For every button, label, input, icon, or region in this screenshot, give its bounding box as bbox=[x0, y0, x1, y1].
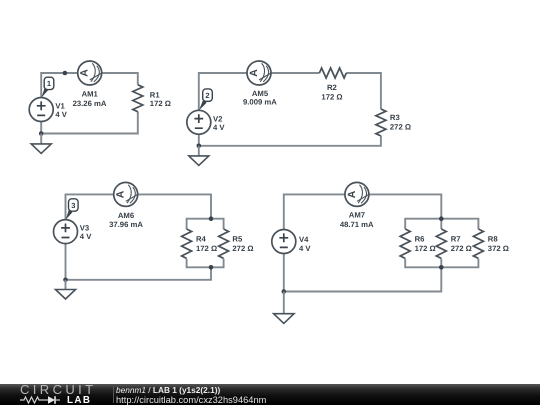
resistor R5 bbox=[219, 229, 229, 258]
svg-text:9.009 mA: 9.009 mA bbox=[243, 98, 277, 107]
svg-text:AM7: AM7 bbox=[349, 211, 365, 220]
svg-text:3: 3 bbox=[71, 201, 75, 210]
svg-text:R5: R5 bbox=[232, 235, 243, 244]
ammeter AM1 bbox=[78, 61, 102, 85]
voltage source V1 bbox=[29, 98, 53, 122]
svg-text:172 Ω: 172 Ω bbox=[415, 244, 436, 253]
footer bar bbox=[0, 384, 540, 405]
ground (circuit 3) bbox=[56, 280, 76, 299]
svg-text:2: 2 bbox=[205, 91, 209, 100]
svg-text:172 Ω: 172 Ω bbox=[321, 93, 342, 102]
svg-text:AM5: AM5 bbox=[252, 89, 269, 98]
voltage source V3 bbox=[54, 220, 78, 244]
resistor R2 bbox=[319, 68, 346, 78]
node junction dot bottom bbox=[39, 131, 44, 136]
wire top: V3 top to parallel feed bbox=[66, 194, 212, 220]
svg-text:1: 1 bbox=[47, 79, 51, 88]
bottom bus R6/R7/R8 bbox=[405, 259, 478, 268]
wire bottom: R3 bottom to V2 bottom bbox=[199, 134, 381, 146]
junction dot V4 bottom bbox=[282, 289, 287, 294]
svg-text:R2: R2 bbox=[327, 83, 337, 92]
node junction dot on top wire bbox=[63, 71, 68, 76]
R7 bottom stem bbox=[440, 259, 442, 268]
wire: bus to bottom bbox=[284, 254, 442, 292]
wire: bus to bottom bbox=[66, 244, 212, 280]
svg-text:AM1: AM1 bbox=[82, 90, 99, 99]
voltage source V2 bbox=[187, 110, 211, 134]
top bus R4/R5 bbox=[187, 219, 224, 229]
resistor R3 bbox=[376, 109, 386, 136]
svg-text:A: A bbox=[115, 190, 127, 198]
svg-text:48.71 mA: 48.71 mA bbox=[340, 220, 374, 229]
bottom bus R4/R5 bbox=[187, 259, 224, 268]
ammeter AM6 bbox=[114, 182, 138, 206]
node 1 flag bbox=[41, 77, 53, 97]
svg-text:AM6: AM6 bbox=[118, 211, 134, 220]
junction dot bottom bus bbox=[209, 265, 214, 270]
svg-text:A: A bbox=[346, 190, 358, 198]
svg-text:A: A bbox=[79, 69, 91, 77]
svg-text:23.26 mA: 23.26 mA bbox=[73, 99, 107, 108]
resistor R1 bbox=[133, 85, 143, 112]
wire top: V1 top to R1 top bbox=[41, 73, 138, 98]
logo resistor+diode mark bbox=[20, 394, 66, 405]
wire: R2 right to R3 top bbox=[346, 73, 381, 109]
R7 top stem bbox=[440, 219, 442, 229]
node 2 flag bbox=[199, 89, 212, 110]
wire top: V2 top to R2 left bbox=[199, 73, 320, 110]
resistor R6 bbox=[400, 229, 410, 258]
svg-text:4 V: 4 V bbox=[299, 244, 311, 253]
LAB wordmark bbox=[67, 395, 91, 405]
ammeter AM7 bbox=[345, 182, 369, 206]
ground (circuit 1) bbox=[31, 134, 51, 154]
title text bbox=[116, 385, 220, 395]
resistor R8 bbox=[473, 229, 483, 258]
ground (circuit 4) bbox=[274, 292, 294, 324]
resistor R7 bbox=[436, 229, 446, 258]
svg-text:R8: R8 bbox=[488, 235, 499, 244]
ground (circuit 2) bbox=[189, 146, 209, 166]
svg-text:R6: R6 bbox=[415, 235, 425, 244]
svg-text:272 Ω: 272 Ω bbox=[390, 122, 411, 131]
junction dot V3 bottom bbox=[63, 278, 68, 283]
svg-text:372 Ω: 372 Ω bbox=[488, 244, 509, 253]
ammeter AM5 bbox=[247, 61, 271, 85]
voltage source V4 bbox=[272, 230, 296, 254]
svg-text:R3: R3 bbox=[390, 113, 400, 122]
svg-text:37.96 mA: 37.96 mA bbox=[109, 220, 143, 229]
node 3 flag bbox=[66, 199, 78, 220]
svg-text:272 Ω: 272 Ω bbox=[232, 244, 253, 253]
resistor R4 bbox=[182, 229, 192, 258]
top bus R6/R7/R8 bbox=[405, 219, 478, 229]
svg-text:172 Ω: 172 Ω bbox=[196, 244, 217, 253]
junction dot top bus bbox=[439, 216, 444, 221]
svg-text:272 Ω: 272 Ω bbox=[451, 244, 472, 253]
CircuitLab wordmark bbox=[20, 382, 97, 397]
wire bottom: R1 bottom to V1 bottom bbox=[41, 112, 138, 134]
wire top: V4 top to parallel feed bbox=[284, 194, 442, 229]
svg-text:R4: R4 bbox=[196, 235, 207, 244]
junction dot top bus bbox=[209, 216, 214, 221]
svg-text:4 V: 4 V bbox=[55, 110, 67, 119]
svg-text:A: A bbox=[248, 69, 260, 77]
svg-text:V4: V4 bbox=[299, 235, 309, 244]
svg-text:172 Ω: 172 Ω bbox=[150, 99, 171, 108]
url text bbox=[116, 395, 266, 405]
svg-text:4 V: 4 V bbox=[213, 123, 225, 132]
junction dot V2 bottom bbox=[197, 144, 202, 149]
svg-text:R7: R7 bbox=[451, 235, 461, 244]
junction dot bottom bus bbox=[439, 265, 444, 270]
svg-text:4 V: 4 V bbox=[80, 232, 92, 241]
